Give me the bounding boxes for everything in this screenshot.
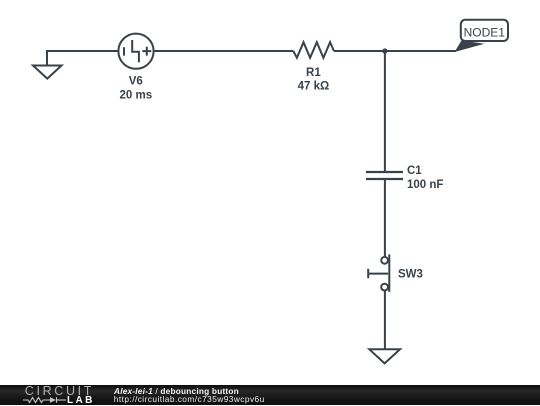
wire junction to C1: [384, 51, 386, 172]
ground GND1: [33, 66, 62, 79]
voltage source V6: [118, 34, 153, 69]
credit line: [114, 386, 239, 396]
capacitor C1: [366, 172, 403, 179]
CircuitLab logo text CIRCUIT: [25, 384, 94, 398]
svg-text:SW3: SW3: [398, 268, 423, 280]
svg-text:V6: V6: [129, 76, 143, 88]
wire SW3 to ground: [384, 291, 386, 350]
wire C1 to SW3: [384, 179, 386, 257]
node flag NODE1: [455, 20, 509, 52]
label C1: [407, 165, 422, 177]
label V6: [129, 76, 143, 88]
label R1: [306, 67, 321, 79]
svg-text:R1: R1: [306, 67, 321, 79]
switch SW3: [368, 254, 389, 292]
wire V6 to R1: [154, 50, 294, 52]
label SW3: [398, 268, 423, 280]
CircuitLab logo squiggle: [23, 396, 73, 404]
svg-text:C1: C1: [407, 165, 422, 177]
wire R1 to NODE1: [334, 50, 456, 52]
value 20 ms: [119, 90, 152, 102]
svg-text:NODE1: NODE1: [464, 26, 506, 40]
footer bar: [0, 385, 540, 406]
value 100 nF: [407, 179, 443, 191]
ground GND2: [369, 349, 400, 363]
junction node: [382, 48, 387, 53]
svg-text:47 kΩ: 47 kΩ: [298, 81, 330, 93]
svg-text:20 ms: 20 ms: [119, 90, 152, 102]
url line: [114, 394, 265, 404]
wire ground to V6: [47, 51, 119, 66]
value 47 kOhm: [298, 81, 330, 93]
resistor R1: [293, 42, 334, 58]
svg-text:100 nF: 100 nF: [407, 179, 443, 191]
CircuitLab logo text LAB: [67, 395, 95, 406]
